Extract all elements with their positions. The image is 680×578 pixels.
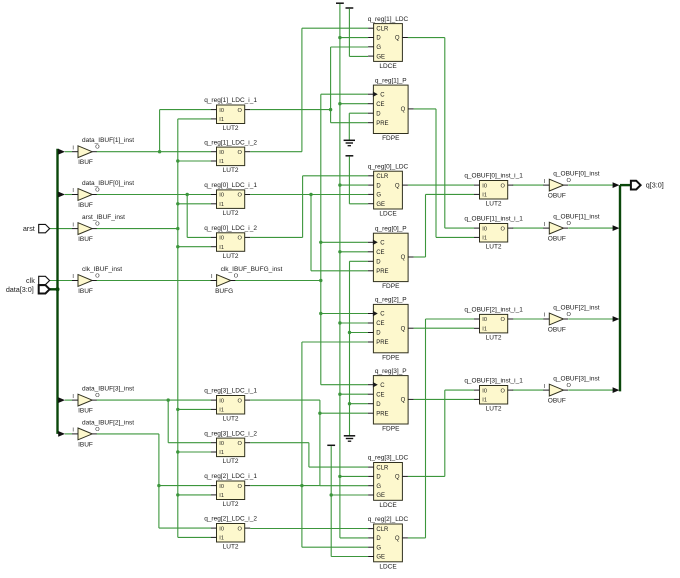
wire net data_IBUF[2]: IBUF out to LUT I0 pins xyxy=(97,434,212,528)
wire net data_IBUF[3]: IBUF out to LUT I0 pins xyxy=(97,398,212,442)
svg-text:q_reg[1]_LDC_i_1: q_reg[1]_LDC_i_1 xyxy=(204,97,257,104)
svg-text:I0: I0 xyxy=(219,150,224,156)
svg-text:I1: I1 xyxy=(219,245,224,251)
svg-text:O: O xyxy=(238,398,243,404)
svg-text:I0: I0 xyxy=(219,441,224,447)
wire q_OBUF[0] out to bus with merge arrow xyxy=(568,182,619,188)
svg-text:D: D xyxy=(376,475,381,481)
svg-text:data_IBUF[3]_inst: data_IBUF[3]_inst xyxy=(82,386,134,393)
svg-text:IBUF: IBUF xyxy=(78,159,93,166)
input port arst xyxy=(23,224,50,233)
wire net q_OBUF[0] LUT out to OBUF xyxy=(512,184,543,186)
flip-flop FDPE q_reg[3]_P xyxy=(368,368,414,433)
LUT2 q_reg[1]_LDC_i_1 xyxy=(204,97,257,132)
buffer OBUF q_OBUF[2]_inst xyxy=(543,305,599,334)
svg-text:CE: CE xyxy=(376,392,384,398)
svg-text:clk_IBUF_BUFG_inst: clk_IBUF_BUFG_inst xyxy=(221,266,283,273)
power VCC const1 bar (top) xyxy=(336,3,344,538)
flip-flop FDPE q_reg[2]_P xyxy=(368,297,414,362)
svg-text:Q: Q xyxy=(395,475,400,481)
svg-text:q_reg[0]_P: q_reg[0]_P xyxy=(375,225,407,232)
svg-text:O: O xyxy=(95,222,100,228)
svg-text:CLR: CLR xyxy=(376,26,389,32)
LUT2 q_reg[0]_LDC_i_2 xyxy=(204,225,257,260)
wire net q_OBUF[2] LUT out to OBUF xyxy=(512,318,543,320)
wire net q_reg[1]_LDC_i_1 out: to LDCE G and FDPE PRE xyxy=(250,47,368,123)
svg-text:LUT2: LUT2 xyxy=(223,167,239,174)
svg-text:q_OBUF[3]_inst: q_OBUF[3]_inst xyxy=(553,376,599,383)
svg-text:GE: GE xyxy=(376,202,385,208)
svg-text:data_IBUF[2]_inst: data_IBUF[2]_inst xyxy=(82,419,134,426)
wire net data_IBUF[1]: IBUF out to LUT I0 pins xyxy=(97,110,212,154)
svg-text:CLR: CLR xyxy=(376,465,389,471)
wire net arst from port to arst_IBUF_inst xyxy=(50,228,72,230)
svg-text:LUT2: LUT2 xyxy=(223,253,239,260)
svg-text:D: D xyxy=(376,183,381,189)
buffer IBUF data_IBUF[1]_inst xyxy=(72,137,134,166)
svg-text:q_reg[0]_LDC: q_reg[0]_LDC xyxy=(368,163,409,170)
svg-text:PRE: PRE xyxy=(376,269,388,275)
wire q_OBUF[1] out to bus with merge arrow xyxy=(568,225,619,231)
wire net q_reg[0]_LDC_i_2 out: to LDCE CLR xyxy=(250,176,368,238)
buffer OBUF q_OBUF[3]_inst xyxy=(543,376,599,405)
svg-text:q_OBUF[1]_inst: q_OBUF[1]_inst xyxy=(553,214,599,221)
svg-text:C: C xyxy=(380,383,385,389)
svg-text:arst: arst xyxy=(23,224,35,233)
svg-text:G: G xyxy=(376,45,381,51)
svg-text:O: O xyxy=(567,383,572,389)
ground symbol for q_reg[1]_P D xyxy=(344,113,368,146)
svg-text:Q: Q xyxy=(395,536,400,542)
wire net q_reg[2]_LDC Q to q_OBUF[2] LUT I0 xyxy=(408,319,474,538)
svg-text:OBUF: OBUF xyxy=(548,193,566,200)
svg-text:D: D xyxy=(376,36,381,42)
svg-text:PRE: PRE xyxy=(376,340,388,346)
svg-text:q_reg[1]_LDC: q_reg[1]_LDC xyxy=(368,16,409,23)
svg-text:CE: CE xyxy=(376,102,384,108)
output port q[3:0] xyxy=(631,181,664,190)
svg-text:I1: I1 xyxy=(482,236,487,242)
svg-text:CLR: CLR xyxy=(376,174,389,180)
input port data[3:0] xyxy=(6,285,50,294)
svg-text:FDPE: FDPE xyxy=(382,426,400,433)
LUT2 q_OBUF[3]_inst_i_1 xyxy=(464,378,523,413)
bus tap arrow to data_IBUF[1] xyxy=(58,149,72,155)
svg-text:I0: I0 xyxy=(219,484,224,490)
svg-text:q_OBUF[0]_inst: q_OBUF[0]_inst xyxy=(553,171,599,178)
svg-text:O: O xyxy=(95,274,100,280)
svg-text:I1: I1 xyxy=(482,193,487,199)
svg-text:G: G xyxy=(376,193,381,199)
wire net q_reg[3]_P Q to q_OBUF[3] LUT I1 xyxy=(414,398,474,400)
svg-text:G: G xyxy=(376,484,381,490)
svg-text:q_OBUF[2]_inst: q_OBUF[2]_inst xyxy=(553,305,599,312)
svg-text:FDPE: FDPE xyxy=(382,283,400,290)
svg-text:GE: GE xyxy=(376,493,385,499)
svg-text:O: O xyxy=(567,312,572,318)
svg-text:O: O xyxy=(95,427,100,433)
svg-text:LDCE: LDCE xyxy=(379,63,397,70)
wire bus data[3:0] port stub xyxy=(50,288,58,290)
svg-text:O: O xyxy=(238,193,243,199)
buffer BUFG clk_IBUF_BUFG_inst xyxy=(211,266,283,295)
wire q_OBUF[3] out to bus with merge arrow xyxy=(568,387,619,393)
wire net q_reg[3]_LDC_i_1 out: to FDPE PRE and LDCE G xyxy=(250,400,368,486)
svg-text:I1: I1 xyxy=(219,117,224,123)
input port clk xyxy=(26,276,50,285)
svg-text:q_OBUF[0]_inst_i_1: q_OBUF[0]_inst_i_1 xyxy=(464,173,523,180)
svg-text:q_reg[2]_P: q_reg[2]_P xyxy=(375,297,407,304)
svg-text:LDCE: LDCE xyxy=(379,563,397,570)
svg-text:O: O xyxy=(238,484,243,490)
svg-text:LUT2: LUT2 xyxy=(486,244,502,251)
svg-text:I1: I1 xyxy=(482,398,487,404)
flip-flop FDPE q_reg[1]_P xyxy=(368,77,414,142)
svg-text:data_IBUF[0]_inst: data_IBUF[0]_inst xyxy=(82,180,134,187)
svg-text:FDPE: FDPE xyxy=(382,354,400,361)
svg-text:C: C xyxy=(380,312,385,318)
svg-text:O: O xyxy=(238,108,243,114)
wire net q_reg[1]_LDC Q to q_OBUF[1] LUT I0 xyxy=(408,38,474,229)
svg-text:Q: Q xyxy=(395,36,400,42)
svg-text:q_reg[2]_LDC_i_1: q_reg[2]_LDC_i_1 xyxy=(204,473,257,480)
wire net q_reg[1]_P Q to q_OBUF[1] LUT I1 xyxy=(414,109,474,238)
svg-text:LUT2: LUT2 xyxy=(223,125,239,132)
svg-text:CLR: CLR xyxy=(376,527,389,533)
svg-text:q_reg[1]_LDC_i_2: q_reg[1]_LDC_i_2 xyxy=(204,139,257,146)
svg-text:I1: I1 xyxy=(219,202,224,208)
LUT2 q_reg[3]_LDC_i_2 xyxy=(204,430,257,465)
wire net q_reg[2]_P Q to q_OBUF[2] LUT I1 xyxy=(414,327,474,329)
wire net q_reg[3]_LDC_i_2 out: to LDCE CLR xyxy=(250,443,368,467)
svg-text:LUT2: LUT2 xyxy=(223,544,239,551)
svg-text:arst_IBUF_inst: arst_IBUF_inst xyxy=(82,214,125,221)
svg-text:CE: CE xyxy=(376,250,384,256)
LUT2 q_OBUF[0]_inst_i_1 xyxy=(464,173,523,208)
svg-text:q_OBUF[3]_inst_i_1: q_OBUF[3]_inst_i_1 xyxy=(464,378,523,385)
power VCC bar for q_reg[3]_LDC and q_reg[2]_LDC GE xyxy=(327,445,368,556)
wire net q_reg[0]_P Q to q_OBUF[0] LUT I1 xyxy=(414,194,474,257)
svg-text:I1: I1 xyxy=(219,450,224,456)
wire net q_reg[1]_LDC_i_2 out: to LDCE CLR xyxy=(250,28,368,152)
svg-text:O: O xyxy=(501,388,506,394)
buffer OBUF q_OBUF[1]_inst xyxy=(543,214,599,243)
svg-text:OBUF: OBUF xyxy=(548,326,566,333)
wire net clk_IBUF from IBUF to BUFG xyxy=(97,280,212,282)
svg-text:I0: I0 xyxy=(219,108,224,114)
svg-text:O: O xyxy=(238,441,243,447)
svg-text:data[3:0]: data[3:0] xyxy=(6,285,34,294)
svg-text:G: G xyxy=(376,545,381,551)
power VCC bar for q_reg[0]_LDC GE xyxy=(346,156,369,204)
bus q[3:0] vertical trunk xyxy=(619,185,621,391)
svg-text:O: O xyxy=(501,317,506,323)
svg-text:IBUF: IBUF xyxy=(78,236,93,243)
svg-text:PRE: PRE xyxy=(376,121,388,127)
svg-text:Q: Q xyxy=(401,255,406,261)
svg-text:IBUF: IBUF xyxy=(78,408,93,415)
svg-text:O: O xyxy=(501,226,506,232)
svg-text:I1: I1 xyxy=(219,159,224,165)
svg-text:q_reg[2]_LDC_i_2: q_reg[2]_LDC_i_2 xyxy=(204,516,257,523)
svg-text:PRE: PRE xyxy=(376,411,388,417)
svg-text:I0: I0 xyxy=(219,193,224,199)
svg-text:I1: I1 xyxy=(482,327,487,333)
LUT2 q_OBUF[2]_inst_i_1 xyxy=(464,307,523,342)
svg-text:D: D xyxy=(376,111,381,117)
svg-text:clk_IBUF_inst: clk_IBUF_inst xyxy=(82,266,122,273)
svg-text:IBUF: IBUF xyxy=(78,202,93,209)
buffer IBUF data_IBUF[0]_inst xyxy=(72,180,134,209)
svg-text:q[3:0]: q[3:0] xyxy=(646,181,664,190)
svg-text:I0: I0 xyxy=(219,236,224,242)
svg-text:LUT2: LUT2 xyxy=(223,416,239,423)
svg-text:D: D xyxy=(376,260,381,266)
svg-text:I1: I1 xyxy=(219,493,224,499)
buffer IBUF arst_IBUF_inst xyxy=(72,214,125,243)
svg-text:D: D xyxy=(376,402,381,408)
LDCE latch q_reg[2]_LDC xyxy=(368,516,409,570)
bus tap arrow to data_IBUF[2] xyxy=(58,431,72,437)
svg-text:I0: I0 xyxy=(482,388,487,394)
bus tap arrow to data_IBUF[3] xyxy=(58,397,72,403)
svg-text:Q: Q xyxy=(401,398,406,404)
wire q_OBUF[2] out to bus with merge arrow xyxy=(568,316,619,322)
svg-text:q_reg[3]_LDC: q_reg[3]_LDC xyxy=(368,455,409,462)
LUT2 q_reg[0]_LDC_i_1 xyxy=(204,182,257,217)
svg-text:Q: Q xyxy=(395,183,400,189)
wire net data_IBUF[0]: IBUF out to LUT I0 pins xyxy=(97,193,212,238)
bus data[3:0] vertical trunk xyxy=(56,149,58,434)
svg-text:GE: GE xyxy=(376,555,385,561)
svg-text:q_reg[0]_LDC_i_2: q_reg[0]_LDC_i_2 xyxy=(204,225,257,232)
ground symbol and trunk for FDPE D pins xyxy=(344,261,368,441)
svg-text:I0: I0 xyxy=(219,526,224,532)
svg-text:FDPE: FDPE xyxy=(382,135,400,142)
svg-text:I0: I0 xyxy=(219,398,224,404)
svg-text:O: O xyxy=(567,221,572,227)
bus tap arrow to data_IBUF[0] xyxy=(58,192,72,198)
svg-text:LUT2: LUT2 xyxy=(486,201,502,208)
wire net clk from port to clk_IBUF_inst xyxy=(50,280,72,282)
svg-text:O: O xyxy=(238,236,243,242)
svg-text:I0: I0 xyxy=(482,317,487,323)
svg-text:O: O xyxy=(501,183,506,189)
svg-text:q_reg[0]_LDC_i_1: q_reg[0]_LDC_i_1 xyxy=(204,182,257,189)
buffer IBUF clk_IBUF_inst xyxy=(72,266,122,295)
svg-text:IBUF: IBUF xyxy=(78,441,93,448)
svg-text:O: O xyxy=(238,526,243,532)
svg-text:I1: I1 xyxy=(219,536,224,542)
wire net arst_IBUF vertical trunk to LUT I1 pins xyxy=(97,119,212,538)
wire net const1 branches to LDCE D and FDPE CE pins xyxy=(338,36,368,538)
wire net q_reg[0]_LDC Q to q_OBUF[0] LUT I0 xyxy=(408,184,474,186)
wire net q_OBUF[1] LUT out to OBUF xyxy=(512,227,543,229)
LDCE latch q_reg[3]_LDC xyxy=(368,455,409,509)
buffer OBUF q_OBUF[0]_inst xyxy=(543,171,599,200)
svg-text:O: O xyxy=(238,150,243,156)
wire net q_reg[2]_LDC_i_2 out: to LDCE CLR xyxy=(250,528,368,530)
wire net q_reg[0]_LDC_i_1 out: to LDCE G and FDPE PRE xyxy=(250,193,368,271)
wire net q_OBUF[3] LUT out to OBUF xyxy=(512,389,543,391)
LUT2 q_reg[3]_LDC_i_1 xyxy=(204,388,257,423)
svg-text:O: O xyxy=(95,393,100,399)
svg-text:q_reg[2]_LDC: q_reg[2]_LDC xyxy=(368,516,409,523)
LUT2 q_reg[1]_LDC_i_2 xyxy=(204,139,257,174)
svg-text:q_OBUF[2]_inst_i_1: q_OBUF[2]_inst_i_1 xyxy=(464,307,523,314)
buffer IBUF data_IBUF[3]_inst xyxy=(72,386,134,415)
svg-text:LDCE: LDCE xyxy=(379,502,397,509)
svg-text:q_reg[1]_P: q_reg[1]_P xyxy=(375,77,407,84)
wire bus q[3:0] to output port xyxy=(620,184,631,186)
svg-text:LUT2: LUT2 xyxy=(223,501,239,508)
svg-text:Q: Q xyxy=(401,107,406,113)
svg-text:O: O xyxy=(567,178,572,184)
svg-text:I1: I1 xyxy=(219,408,224,414)
svg-text:LUT2: LUT2 xyxy=(486,406,502,413)
svg-text:data_IBUF[1]_inst: data_IBUF[1]_inst xyxy=(82,137,134,144)
junction data[3:0] at port xyxy=(56,287,60,291)
svg-text:OBUF: OBUF xyxy=(548,236,566,243)
wire net q_reg[3]_LDC Q to q_OBUF[3] LUT I0 xyxy=(408,390,474,476)
svg-text:D: D xyxy=(376,536,381,542)
svg-text:LUT2: LUT2 xyxy=(223,458,239,465)
svg-text:LUT2: LUT2 xyxy=(223,210,239,217)
svg-text:q_reg[3]_LDC_i_1: q_reg[3]_LDC_i_1 xyxy=(204,388,257,395)
svg-text:q_reg[3]_LDC_i_2: q_reg[3]_LDC_i_2 xyxy=(204,430,257,437)
svg-text:q_OBUF[1]_inst_i_1: q_OBUF[1]_inst_i_1 xyxy=(464,216,523,223)
svg-text:I0: I0 xyxy=(482,183,487,189)
power VCC bar for q_reg[1]_LDC GE xyxy=(346,8,369,56)
svg-text:GE: GE xyxy=(376,54,385,60)
wire net clk_IBUF_BUFG trunk to FDPE C pins xyxy=(235,94,368,385)
svg-text:IBUF: IBUF xyxy=(78,288,93,295)
svg-text:I0: I0 xyxy=(482,226,487,232)
buffer IBUF data_IBUF[2]_inst xyxy=(72,419,134,448)
flip-flop FDPE q_reg[0]_P xyxy=(368,225,414,290)
svg-text:O: O xyxy=(95,145,100,151)
svg-text:q_reg[3]_P: q_reg[3]_P xyxy=(375,368,407,375)
svg-text:Q: Q xyxy=(401,326,406,332)
svg-text:OBUF: OBUF xyxy=(548,398,566,405)
svg-text:C: C xyxy=(380,92,385,98)
LUT2 q_reg[2]_LDC_i_2 xyxy=(204,516,257,551)
svg-text:clk: clk xyxy=(26,276,35,285)
LDCE latch q_reg[0]_LDC xyxy=(368,163,409,217)
svg-text:BUFG: BUFG xyxy=(215,288,233,295)
svg-text:C: C xyxy=(380,241,385,247)
LDCE latch q_reg[1]_LDC xyxy=(368,16,409,70)
svg-text:O: O xyxy=(95,188,100,194)
wire net q_reg[2]_LDC_i_1 out: to FDPE PRE and LDCE G xyxy=(250,342,368,547)
svg-text:O: O xyxy=(234,274,239,280)
svg-text:D: D xyxy=(376,331,381,337)
svg-text:LDCE: LDCE xyxy=(379,211,397,218)
LUT2 q_OBUF[1]_inst_i_1 xyxy=(464,216,523,251)
svg-text:CE: CE xyxy=(376,321,384,327)
LUT2 q_reg[2]_LDC_i_1 xyxy=(204,473,257,508)
svg-text:LUT2: LUT2 xyxy=(486,335,502,342)
